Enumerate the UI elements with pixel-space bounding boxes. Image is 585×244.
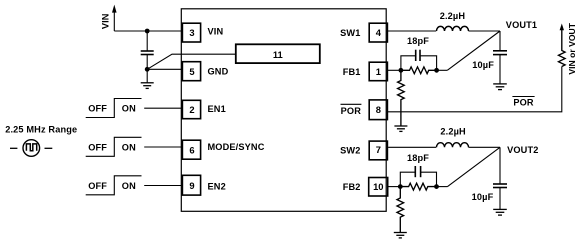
node VIN junction: [145, 29, 150, 34]
svg-text:EN1: EN1: [208, 104, 226, 114]
ground FB1: [394, 126, 407, 131]
ground VOUT2 cap: [493, 209, 507, 215]
node FB2 left: [398, 184, 403, 189]
pin 1 box: [369, 62, 387, 80]
resistor R2 FB1 lower: [398, 70, 405, 126]
svg-text:4: 4: [376, 27, 382, 38]
wire VIN arrow stem: [113, 12, 115, 32]
pin 2 box: [182, 100, 200, 118]
POR overline right label: [512, 96, 534, 98]
svg-text:SW1: SW1: [340, 28, 360, 38]
arrow VIN input: [112, 5, 117, 13]
inductor L2 2.2uH: [437, 143, 469, 148]
svg-text:POR: POR: [341, 106, 362, 116]
svg-text:10µF: 10µF: [472, 60, 494, 70]
wire input cap bottom to ground: [146, 55, 148, 83]
capacitor C5 18pF branch: [400, 172, 415, 186]
svg-text:SW2: SW2: [340, 145, 360, 155]
capacitor C2 10uF VOUT1: [493, 50, 507, 52]
wire VOUT2 down to cap: [499, 147, 501, 184]
capacitor C4 10uF VOUT2: [493, 183, 507, 185]
wire node to diagonal: [437, 186, 448, 188]
node GND junction: [145, 67, 150, 72]
svg-text:2: 2: [189, 104, 194, 115]
ground FB2: [394, 233, 407, 238]
IC U1 outline: [181, 9, 386, 212]
wire EN1 to pin 2: [144, 107, 182, 109]
wire FB2 pin 10 to node: [388, 186, 401, 188]
switch EN2: [86, 176, 142, 195]
svg-text:ON: ON: [122, 143, 136, 153]
wire diagonal FB2 to VOUT2: [448, 147, 501, 186]
svg-text:18pF: 18pF: [407, 36, 429, 46]
node FB1 left: [399, 68, 404, 73]
arrow VIN or VOUT: [560, 24, 564, 31]
ground input: [141, 83, 154, 89]
svg-text:GND: GND: [208, 67, 229, 77]
wire MODE/SYNC to pin 6: [144, 146, 182, 148]
svg-text:1: 1: [376, 66, 381, 77]
svg-text:OFF: OFF: [88, 143, 107, 153]
svg-text:OFF: OFF: [88, 181, 107, 191]
wire cap to ground: [499, 188, 501, 210]
wire SW2 pin 7 to inductor: [388, 146, 436, 148]
svg-text:2.2µH: 2.2µH: [440, 126, 466, 136]
resistor R4 feedback horizontal: [400, 183, 436, 190]
pin 8 box: [369, 100, 387, 120]
svg-text:2.25 MHz Range: 2.25 MHz Range: [5, 124, 77, 134]
pin 6 box: [182, 140, 200, 159]
wire inductor to VOUT1: [469, 30, 501, 32]
pin 10 box: [369, 178, 388, 197]
svg-text:FB1: FB1: [343, 67, 361, 77]
pin 7 box: [369, 141, 387, 160]
svg-text:POR: POR: [513, 98, 534, 108]
wire FB1 pin 1 to node: [387, 69, 401, 71]
svg-text:VIN or VOUT: VIN or VOUT: [567, 22, 577, 74]
svg-text:5: 5: [189, 66, 194, 77]
capacitor C3 18pF branch: [401, 56, 416, 71]
thermal pad 11 box: [236, 44, 320, 63]
resistor R5 FB2 lower: [397, 187, 404, 233]
wire diagonal to pad 11: [147, 54, 236, 69]
ground VOUT1 cap: [493, 84, 507, 90]
svg-text:2.2µH: 2.2µH: [440, 11, 466, 21]
svg-text:MODE/SYNC: MODE/SYNC: [208, 142, 265, 152]
node FB1 right: [434, 68, 439, 73]
svg-text:FB2: FB2: [343, 182, 361, 192]
wire EN2 to pin 9: [144, 185, 182, 187]
pin 5 box: [182, 62, 200, 81]
svg-text:7: 7: [376, 144, 381, 155]
svg-text:EN2: EN2: [208, 181, 226, 191]
resistor R1 feedback horizontal: [401, 67, 437, 74]
wire POR pin 8 net: [388, 67, 562, 112]
capacitor C1 input 10uF plates: [141, 50, 154, 52]
pin 9 box: [182, 175, 200, 195]
svg-text:VIN: VIN: [101, 13, 111, 29]
wire cap to ground: [499, 55, 501, 84]
svg-text:ON: ON: [122, 181, 136, 191]
svg-text:VOUT1: VOUT1: [506, 20, 537, 30]
pin 4 box: [369, 23, 387, 42]
wire node to diagonal: [437, 69, 448, 71]
wire VIN input to pin 3: [114, 30, 182, 32]
node FB2 right: [434, 184, 439, 189]
svg-text:10µF: 10µF: [472, 192, 494, 202]
wire GND pin 5: [147, 68, 182, 70]
wire SW1 pin 4 to inductor: [387, 30, 436, 32]
switch EN1: [86, 99, 142, 118]
svg-text:9: 9: [189, 180, 194, 191]
svg-text:OFF: OFF: [88, 104, 107, 114]
svg-text:10: 10: [373, 181, 383, 192]
svg-text:11: 11: [273, 49, 283, 60]
svg-text:VIN: VIN: [208, 27, 224, 37]
wire VOUT1 down to cap: [499, 31, 501, 51]
pin 3 box: [182, 23, 200, 42]
wire inductor to VOUT2: [469, 146, 501, 148]
svg-text:8: 8: [376, 104, 381, 115]
oscillator symbol: [23, 140, 40, 157]
svg-text:3: 3: [189, 27, 194, 38]
svg-text:ON: ON: [122, 104, 136, 114]
wire input cap top: [146, 31, 148, 51]
wire diagonal FB1 to VOUT1: [447, 31, 500, 70]
resistor R3 POR pullup: [559, 29, 566, 67]
switch MODE/SYNC: [86, 137, 142, 156]
svg-text:VOUT2: VOUT2: [507, 145, 538, 155]
inductor L1 2.2uH: [437, 26, 469, 31]
svg-text:18pF: 18pF: [407, 153, 429, 163]
svg-text:6: 6: [189, 144, 194, 155]
POR overline pin label: [341, 103, 362, 105]
